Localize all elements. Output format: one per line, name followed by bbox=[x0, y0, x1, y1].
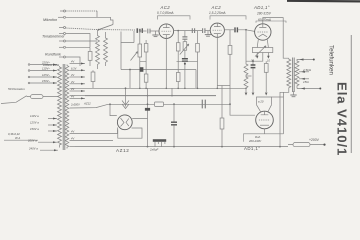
node junction on bottom rail bbox=[279, 146, 281, 148]
svg-text:4V: 4V bbox=[71, 73, 74, 77]
svg-text:+200V: +200V bbox=[309, 138, 320, 142]
resistor R14 tier B bbox=[144, 74, 148, 88]
capacitor C11 electrolytic 2x8uF dark bbox=[153, 139, 166, 146]
svg-text:Rundfunk: Rundfunk bbox=[45, 53, 61, 57]
bracket annotation AD1b bbox=[244, 134, 284, 142]
label primary taps upper bbox=[41, 61, 51, 84]
potentiometer P3 hum balance bbox=[252, 48, 272, 53]
bracket measure tube3 bbox=[256, 21, 286, 23]
transformer T2 core bbox=[293, 58, 295, 93]
svg-text:60-70mA: 60-70mA bbox=[258, 18, 271, 22]
wire secondary bottom out bbox=[297, 87, 321, 89]
capacitor C6 coupling dark bbox=[235, 27, 237, 32]
node bus junctions bbox=[139, 88, 247, 97]
svg-text:a 20: a 20 bbox=[258, 100, 264, 104]
label AC2 first with current range bbox=[157, 5, 173, 15]
node switch junction bbox=[98, 29, 100, 31]
primary tap arrow 110V bbox=[48, 118, 57, 120]
shield termination cluster bbox=[137, 28, 144, 33]
resistor R9 cathode AD1 bbox=[264, 61, 268, 92]
transformer T1 secondary zigzag bbox=[65, 65, 69, 149]
capacitor C10 pair vertical bars bbox=[202, 100, 205, 109]
svg-text:Telefunken: Telefunken bbox=[328, 45, 335, 75]
resistor R2 input zigzag bbox=[96, 30, 100, 69]
svg-text:4V: 4V bbox=[71, 137, 74, 141]
svg-text:4V: 4V bbox=[71, 80, 74, 84]
wire secondary tap low bbox=[299, 78, 309, 80]
svg-text:280-315V: 280-315V bbox=[256, 12, 272, 16]
wire aux bus bbox=[217, 85, 230, 87]
svg-text:110V~: 110V~ bbox=[42, 67, 50, 71]
svg-text:AZ12: AZ12 bbox=[83, 102, 91, 106]
wire secondary tap upper bbox=[297, 59, 314, 62]
wire cap to tube2 grid bbox=[205, 30, 210, 32]
capacitor C12 screen dark bbox=[140, 67, 144, 72]
resistor R16 on +200V feed bbox=[288, 143, 324, 147]
terminal arrow heater right bbox=[267, 53, 270, 59]
label fuse rating bbox=[8, 132, 38, 150]
wire spare bbox=[66, 57, 80, 66]
svg-text:2x8μF: 2x8μF bbox=[149, 148, 158, 152]
wire rundfunk bbox=[66, 40, 97, 42]
label heater terminals bbox=[251, 59, 270, 63]
svg-text:50 Perioden: 50 Perioden bbox=[8, 87, 25, 91]
resistor R3 zigzag bbox=[104, 32, 108, 66]
secondary tap arrow 3 bbox=[70, 76, 86, 78]
node anode junction bbox=[177, 30, 179, 32]
wire cap to AD1 grid bbox=[237, 30, 254, 32]
wire tube2 anode bbox=[224, 29, 234, 31]
svg-text:200-240V: 200-240V bbox=[248, 139, 262, 143]
label AC2 second with current range bbox=[209, 5, 225, 15]
svg-text:220V~: 220V~ bbox=[41, 61, 51, 65]
secondary tap arrow 1 bbox=[70, 63, 86, 65]
svg-text:Tonabnehmer: Tonabnehmer bbox=[42, 35, 65, 39]
node junction on bottom rail bbox=[147, 146, 149, 148]
wire tube2 cathode down bbox=[216, 37, 218, 88]
heater bus wire upper bbox=[93, 87, 246, 89]
wire rectifier heater tap 2 bbox=[70, 140, 114, 142]
tube V2 AC2 triode bbox=[210, 23, 224, 37]
wire bottom rail from winding bbox=[70, 146, 76, 148]
svg-text:110V a: 110V a bbox=[30, 114, 39, 118]
wire AD1 filament legs bbox=[257, 40, 268, 48]
ground grid return tube1 bbox=[152, 31, 158, 37]
resistor R5 anode load tube1 bbox=[176, 31, 180, 73]
arrowhead secondary top bbox=[300, 58, 304, 60]
svg-text:AZ12: AZ12 bbox=[116, 148, 129, 153]
svg-text:150V~: 150V~ bbox=[42, 79, 51, 83]
wire mic return bbox=[66, 11, 113, 25]
wire AZ12 cathode right bbox=[132, 96, 147, 147]
potentiometer P3 wiper arrow bbox=[255, 46, 266, 57]
svg-text:4V: 4V bbox=[71, 87, 74, 91]
input terminal Rundfunk upper bbox=[59, 40, 66, 42]
wire vertical x230 down bbox=[230, 86, 255, 116]
capacitor C4 tone bbox=[182, 31, 187, 42]
secondary tap arrow 5 bbox=[70, 90, 86, 92]
primary tap arrow 240V bbox=[40, 149, 58, 151]
resistor R4 cathode tube1 bbox=[144, 40, 148, 74]
wire AD1b grid loop box bbox=[257, 97, 272, 112]
input terminal spare bbox=[59, 56, 66, 58]
capacitor C3 grid tube2 bbox=[203, 28, 205, 33]
wire pot bottom link bbox=[140, 57, 146, 88]
wire screen feed left bbox=[121, 43, 130, 89]
svg-text:6,3V: 6,3V bbox=[71, 66, 77, 70]
potentiometer P1 wiper arrow bbox=[131, 52, 138, 61]
primary tap arrow 1 bbox=[28, 64, 57, 66]
svg-text:1,5-2,25mA: 1,5-2,25mA bbox=[209, 11, 225, 15]
wire AD1b cathode down bbox=[264, 129, 266, 134]
input terminal Mikrofon lower bbox=[58, 16, 66, 18]
node aux junction bbox=[229, 103, 231, 105]
resistor R13 pot body bbox=[183, 42, 187, 59]
primary tap arrow 2 bbox=[28, 70, 57, 72]
secondary tap arrow 2 bbox=[70, 69, 86, 71]
wire screen line top bbox=[121, 69, 196, 71]
bottom supply rail wire bbox=[75, 146, 288, 148]
wire shielded dashed mic bbox=[66, 10, 97, 12]
wire AD1b top feed bbox=[272, 96, 284, 98]
transformer T2 secondary zigzag bbox=[295, 60, 299, 89]
label AD1 top with ranges bbox=[253, 5, 272, 22]
bracket measure tube1 bbox=[158, 16, 191, 20]
svg-text:W.A: W.A bbox=[15, 136, 20, 140]
wire shielded dashed tonabnehmer bbox=[66, 28, 136, 30]
terminal arrow bias a bbox=[245, 93, 248, 96]
input terminal Tonabnehmer lower bbox=[59, 33, 66, 35]
secondary tap arrow 6 bbox=[70, 97, 86, 99]
svg-text:4V: 4V bbox=[71, 95, 74, 99]
label AD1b annotation bbox=[248, 135, 262, 143]
resistor R10 heater dropper bbox=[91, 70, 95, 88]
wire tonabnehmer return bbox=[66, 34, 90, 48]
svg-text:4V: 4V bbox=[71, 60, 74, 64]
resistor R8 grid leak AD1 zigzag bbox=[244, 30, 248, 92]
primary tap arrow 4 bbox=[28, 82, 57, 84]
label secondary taps bbox=[70, 60, 80, 141]
svg-text:2x300V: 2x300V bbox=[70, 103, 80, 107]
node cathode tap bbox=[147, 103, 149, 105]
ground output transformer bbox=[290, 91, 296, 97]
capacitor C8 reservoir dark bbox=[145, 108, 150, 111]
label speaker taps bbox=[302, 68, 312, 84]
node ground tap junction bbox=[125, 87, 127, 89]
capacitor C9 smoothing bbox=[171, 104, 177, 146]
secondary tap wire heater upper bbox=[70, 87, 94, 89]
resistor R1 vertical box bbox=[88, 47, 92, 66]
fuse F1 bbox=[27, 95, 58, 99]
svg-text:2,5kΩ: 2,5kΩ bbox=[302, 68, 312, 72]
wire rectifier heater tap 1 bbox=[70, 133, 118, 135]
resistor R6 grid leak tube2 bbox=[196, 31, 200, 89]
potentiometer P2 tone arrow bbox=[180, 44, 189, 55]
svg-text:125V~: 125V~ bbox=[42, 73, 51, 77]
resistor R12 bias bbox=[220, 118, 224, 147]
node filter junction bbox=[173, 103, 175, 105]
svg-text:0,7-0,85mA: 0,7-0,85mA bbox=[157, 11, 173, 15]
capacitor C1 grid coupling bbox=[148, 29, 159, 34]
svg-text:AD1,1°: AD1,1° bbox=[244, 146, 260, 151]
node anode tap bbox=[109, 103, 111, 105]
wire tube1 cathode down bbox=[165, 39, 167, 89]
wire hum pot tap down bbox=[246, 53, 263, 62]
secondary tap wire heater lower bbox=[70, 95, 86, 97]
right border line bbox=[350, 35, 352, 153]
node screen junction bbox=[129, 69, 131, 71]
wire AZ12 anode loop bbox=[117, 128, 119, 134]
wire bus drops bbox=[148, 70, 197, 96]
wire rundfunk return bbox=[66, 46, 90, 48]
input terminal Rundfunk lower bbox=[59, 46, 66, 48]
node grid junction AD1 bbox=[245, 29, 247, 31]
node +200V terminal dot bbox=[323, 144, 325, 146]
wire tube1 anode bbox=[174, 30, 202, 32]
svg-text:AC2: AC2 bbox=[160, 5, 171, 10]
resistor R15 tier B bbox=[176, 73, 180, 89]
primary tap arrow 125V bbox=[48, 124, 57, 126]
capacitor C5 electrolytic dark bbox=[177, 59, 198, 89]
svg-text:AC2: AC2 bbox=[211, 5, 222, 10]
node cathode net bbox=[252, 60, 254, 62]
svg-text:Ela V410/1: Ela V410/1 bbox=[335, 82, 350, 156]
terminal arrow heater left bbox=[256, 53, 259, 59]
tube V5 AD1 output triode lower bbox=[256, 111, 274, 129]
ground grid return tube2 bbox=[205, 31, 211, 37]
primary tap arrow 3 bbox=[28, 76, 57, 78]
wire transformer primary bottom to AD1b anode bbox=[280, 91, 289, 147]
terminal arrow bias c bbox=[265, 93, 268, 96]
potentiometer P1 volume bbox=[138, 31, 142, 57]
node junction on bottom rail bbox=[173, 146, 175, 148]
label primary taps lower bbox=[30, 114, 39, 131]
wire pot to grid cap bbox=[140, 30, 147, 32]
transformer T2 output primary zigzag bbox=[287, 58, 291, 90]
transformer T1 primary zigzag bbox=[58, 66, 62, 148]
tube V3 AD1 output triode bbox=[255, 24, 271, 40]
bracket measure tube2 bbox=[210, 16, 246, 20]
tube V1 AC2 triode bbox=[159, 24, 174, 39]
tube V4 AZ12 rectifier bbox=[117, 115, 132, 130]
ground arrow center tap bbox=[122, 88, 129, 108]
transformer T1 core bbox=[63, 64, 65, 150]
top edge dark line bbox=[287, 0, 360, 2]
wire tap of R8 bbox=[246, 75, 252, 77]
capacitor C2 coupling bbox=[192, 28, 194, 33]
wire AD1b anode vertical bbox=[283, 92, 285, 134]
svg-text:Mikrofon: Mikrofon bbox=[43, 18, 57, 22]
wire underline fuse rating bbox=[4, 139, 38, 141]
secondary tap arrow 4 bbox=[70, 83, 86, 85]
wire AZ12 filament box bbox=[118, 128, 142, 138]
terminal arrow bias b bbox=[252, 93, 255, 96]
input terminal Tonabnehmer upper bbox=[59, 27, 66, 29]
svg-text:200V a: 200V a bbox=[27, 138, 37, 142]
wire switch to pot bbox=[121, 31, 134, 43]
svg-text:4V: 4V bbox=[71, 130, 74, 134]
capacitor C7 cathode electrolytic bbox=[251, 61, 256, 92]
input terminal Mikrofon upper bbox=[60, 10, 66, 12]
node junction on bottom rail bbox=[221, 146, 223, 148]
switch S1 selector lever bbox=[99, 25, 114, 30]
svg-text:240V a: 240V a bbox=[28, 146, 38, 150]
switch S2 mains bbox=[1, 96, 27, 104]
heater bus wire lower bbox=[85, 95, 216, 97]
svg-text:125V a: 125V a bbox=[30, 121, 39, 125]
wire rectifier anode drop bbox=[110, 104, 117, 115]
node secondary top dot bbox=[313, 59, 315, 61]
svg-text:15Ω: 15Ω bbox=[303, 80, 309, 84]
wire HV winding to B+ line bbox=[70, 104, 231, 108]
primary tap arrow 220V bbox=[38, 141, 57, 143]
wire secondary tap mid bbox=[299, 71, 309, 73]
svg-text:AD1,1°: AD1,1° bbox=[253, 5, 270, 10]
resistor R7 anode load tube2 bbox=[228, 30, 232, 86]
wire vertical x222 bbox=[221, 86, 223, 119]
svg-text:150V a: 150V a bbox=[30, 127, 39, 131]
resistor R11 filter bbox=[155, 102, 164, 106]
primary tap arrow 150V bbox=[48, 130, 57, 132]
wire AD1 anode to transformer bbox=[263, 18, 289, 59]
